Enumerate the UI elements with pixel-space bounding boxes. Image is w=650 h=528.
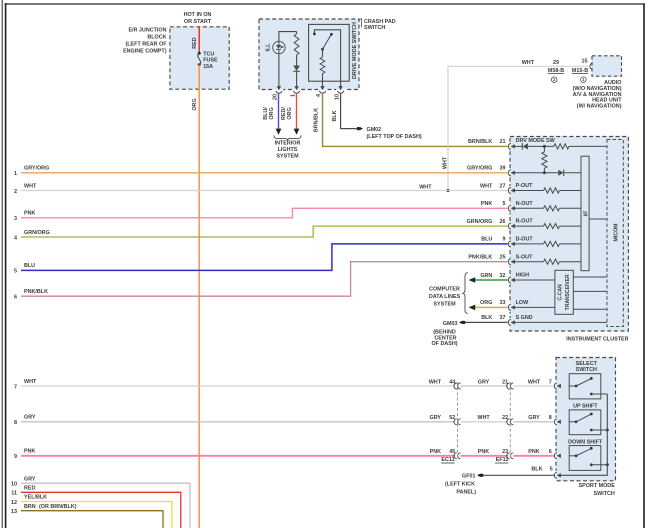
sport mode switch dashed box [556,358,616,481]
label CRASH PAD SWITCH with leader [360,19,362,28]
svg-text:20: 20 [273,94,279,100]
connector EF11 row 7 [507,383,510,389]
svg-text:I/F: I/F [583,211,589,217]
wire RED (hot feed) [198,26,200,53]
svg-text:D-OUT: D-OUT [516,237,534,243]
up shift switch box [569,410,601,435]
wire GRN (CAN high) [475,279,508,281]
lamp ILL [273,41,285,53]
svg-text:ILL: ILL [265,43,271,52]
svg-text:39: 39 [500,166,506,172]
node on drv mode sw row [543,145,546,148]
svg-text:5: 5 [550,467,553,473]
svg-text:PNK: PNK [528,449,539,455]
svg-text:15: 15 [582,59,588,65]
svg-text:GRN/ORG: GRN/ORG [24,230,50,236]
switch lever and pivot [321,48,324,51]
diode (illumination) [296,55,298,66]
audio head unit box [592,56,622,76]
svg-text:(LEFT KICK: (LEFT KICK [445,482,475,488]
node on GRY/ORG row [543,171,546,174]
svg-text:25: 25 [500,255,506,261]
svg-text:29: 29 [553,60,559,66]
svg-text:BLU: BLU [481,237,492,243]
svg-text:COMPUTER: COMPUTER [429,286,460,292]
pin 27 (cluster P-OUT) [508,186,510,195]
svg-text:4: 4 [316,94,322,97]
svg-text:SPORT MODE: SPORT MODE [579,483,616,489]
svg-text:3: 3 [14,216,17,222]
svg-text:PNK: PNK [430,449,441,455]
svg-text:1: 1 [14,171,17,177]
fuse TCU FUSE 15A [198,52,201,55]
svg-text:GM03: GM03 [443,321,458,327]
svg-text:BRN: BRN [24,504,36,510]
wire 3 PNK [21,208,508,218]
svg-text:11: 11 [11,491,17,497]
wire and resistor P-OUT [514,190,543,192]
svg-text:21: 21 [502,379,508,385]
svg-text:7: 7 [14,384,17,390]
svg-text:1: 1 [290,94,296,97]
svg-text:PNK: PNK [478,449,489,455]
wire BLK to ground GM03 [466,321,508,323]
svg-text:PNK: PNK [481,201,492,207]
svg-text:37: 37 [500,315,506,321]
svg-text:DOWN SHIFT: DOWN SHIFT [568,440,603,446]
svg-text:ORG: ORG [287,107,293,119]
svg-text:22: 22 [502,415,508,421]
svg-text:YEL/BLK: YEL/BLK [24,495,47,501]
svg-text:WHT: WHT [477,415,490,421]
resistor R1 [554,144,569,149]
svg-text:GRY: GRY [24,476,36,482]
wire 2 WHT [21,190,508,192]
wire and resistor R-OUT [514,225,543,227]
pin 7 (sport select) [554,382,556,391]
svg-text:WHT: WHT [419,184,432,190]
svg-text:BLOCK: BLOCK [147,34,166,40]
svg-text:DRV MODE SW: DRV MODE SW [516,138,556,144]
svg-text:SWITCH: SWITCH [576,367,597,373]
svg-text:BLU/: BLU/ [263,107,269,120]
svg-text:SWITCH: SWITCH [364,25,385,31]
svg-text:9: 9 [503,237,506,243]
svg-text:WHT: WHT [528,379,541,385]
svg-text:BRN/BLK: BRN/BLK [314,108,320,132]
svg-text:PNK/BLK: PNK/BLK [468,255,492,261]
resistor (switch) [322,49,324,57]
svg-text:8: 8 [14,420,17,426]
pin 26 (cluster R-OUT) [508,222,510,231]
svg-text:ENGINE COMPT): ENGINE COMPT) [123,49,167,55]
svg-text:ORG: ORG [480,300,492,306]
svg-text:GRN: GRN [480,273,492,279]
wire 1 GRY/ORG [21,172,508,174]
C-CAN transceiver box [555,270,573,314]
svg-text:E/R JUNCTION: E/R JUNCTION [128,27,166,33]
svg-text:DATA LINES: DATA LINES [429,294,461,300]
svg-text:7: 7 [549,379,552,385]
ground GF01 [480,474,483,477]
pin 25 (cluster S-OUT) [508,257,510,266]
resistor (illumination) [296,32,298,34]
svg-text:8: 8 [549,415,552,421]
brace and label COMPUTER DATA LINES SYSTEM [462,273,467,314]
ground GM03 [462,321,465,324]
connector EC11 row 8 [454,419,457,425]
svg-text:WHT: WHT [24,183,37,189]
svg-text:45: 45 [449,449,455,455]
svg-text:GF01: GF01 [462,474,475,480]
wire 4 GRN/ORG [21,226,508,237]
svg-text:(W/ NAVIGATION): (W/ NAVIGATION) [577,104,622,110]
select switch box [569,374,601,399]
wire PNK segment row 9 [461,455,509,457]
svg-text:R-OUT: R-OUT [516,219,534,225]
svg-text:2: 2 [14,189,17,195]
wires C-CAN to MICOM [573,276,607,278]
svg-text:GRY: GRY [528,415,540,421]
wire 11 RED [21,492,181,528]
svg-text:26: 26 [500,219,506,225]
wire BLK to ground GF01 [484,474,554,476]
pin 5 (sport gnd) [554,471,556,480]
svg-text:44: 44 [449,379,455,385]
pin 37 (cluster S GND) [508,318,510,327]
svg-text:4: 4 [14,235,17,241]
svg-text:SWITCH: SWITCH [594,491,615,497]
svg-text:RED/: RED/ [281,107,287,120]
svg-text:GRN/ORG: GRN/ORG [467,219,493,225]
wire ORG from fuse to bottom of page [198,65,200,528]
svg-text:FUSE: FUSE [203,58,218,64]
node (junction on WHT wire) [446,189,449,192]
svg-text:WHT: WHT [442,156,448,169]
svg-text:LOW: LOW [516,300,529,306]
wire lamp bottom to pin 20 [278,54,280,87]
pin 6 (sport down) [554,451,556,460]
svg-text:N-OUT: N-OUT [516,201,534,207]
svg-text:EC11: EC11 [441,457,454,463]
node bus/down-shift [606,463,609,466]
wire ORG (CAN low) [475,306,508,308]
svg-text:OR START: OR START [184,19,212,25]
svg-text:33: 33 [500,300,506,306]
svg-text:GRY: GRY [24,415,36,421]
pin 15/29 at audio unit [590,62,592,71]
node bus/up-shift [606,429,609,432]
svg-text:9: 9 [14,454,17,460]
pin 4 [318,88,327,90]
svg-text:5: 5 [14,269,17,275]
svg-text:PNK/BLK: PNK/BLK [24,289,48,295]
wire drv mode sw row [514,145,522,147]
wire WHT segment row 8 [461,421,509,423]
diode D1 (drv mode sw) [521,143,523,150]
svg-text:TCU: TCU [203,51,214,57]
svg-text:23: 23 [502,449,508,455]
wire BRN/BLK from pin 4 to cluster pin 21 [323,93,508,146]
svg-text:(LEFT REAR OF: (LEFT REAR OF [125,42,167,48]
svg-text:13: 13 [11,509,17,515]
wire ground bus [556,394,607,475]
E/R junction block box [170,27,229,89]
svg-text:DRIVE MODE SWITCH: DRIVE MODE SWITCH [352,22,358,79]
svg-text:10: 10 [11,482,17,488]
wire 9 PNK segment [21,455,455,457]
svg-text:OF DASH): OF DASH) [431,341,457,347]
wire and resistor N-OUT [514,207,543,209]
svg-text:BLK: BLK [531,467,542,473]
wire 5 BLU [21,244,508,271]
svg-text:5: 5 [503,201,506,207]
connector EF11 row 8 [507,419,510,425]
svg-text:RED: RED [24,486,35,492]
diode D2 [558,170,563,176]
svg-text:32: 32 [500,273,506,279]
pin 10 [336,88,345,90]
svg-text:PNK: PNK [24,449,35,455]
svg-text:HOT IN ON: HOT IN ON [184,12,212,18]
svg-text:C-CAN: C-CAN [558,284,564,300]
ground GM02 [357,127,360,130]
svg-text:(LEFT TOP OF DASH): (LEFT TOP OF DASH) [367,134,422,140]
svg-text:21: 21 [500,139,506,145]
svg-text:RED: RED [192,37,198,48]
pin 32 (cluster HIGH) [508,276,510,285]
pin 8 (sport up) [554,417,556,426]
svg-text:GRY: GRY [478,379,490,385]
svg-text:HIGH: HIGH [516,273,530,279]
svg-text:GRY/ORG: GRY/ORG [467,166,492,172]
svg-text:SYSTEM: SYSTEM [433,302,456,308]
wire and resistor S-OUT [514,261,543,263]
wire switch top bus [314,30,340,87]
svg-text:GRY: GRY [430,415,442,421]
svg-text:PNK: PNK [24,211,35,217]
pin 33 (cluster LOW) [508,303,510,312]
pin 9 (cluster D-OUT) [508,240,510,249]
brace and label INTERIOR LIGHTS SYSTEM [274,135,301,140]
crash pad switch dashed box [259,19,359,90]
connector EC11 row 9 [454,453,457,459]
svg-text:SYSTEM: SYSTEM [276,154,299,160]
svg-text:27: 27 [500,183,506,189]
wire WHT from node to audio unit [448,66,588,190]
svg-text:52: 52 [449,415,455,421]
connector EF11 dashed line [509,382,511,459]
svg-text:ORG: ORG [269,107,275,119]
pin 1 [292,88,301,90]
svg-text:MICOM: MICOM [613,224,619,242]
svg-text:BLU: BLU [24,263,35,269]
svg-text:EF11: EF11 [496,457,509,463]
connector EC11 dashed line [457,382,459,459]
svg-text:BRN/BLK: BRN/BLK [468,139,492,145]
pin 5 (cluster N-OUT) [508,204,510,213]
pin 39 (cluster) [508,168,510,177]
svg-text:TRANSCEIVER: TRANSCEIVER [565,274,571,310]
wire 13 BRN [21,511,163,528]
wire and resistor D-OUT [514,243,543,245]
wire PNK segment row 9 to switch [513,455,553,457]
wire 6 PNK/BLK [21,262,508,297]
svg-text:PANEL): PANEL) [456,490,476,496]
wire 10 GRY [21,483,190,528]
I/F box [581,156,589,271]
wire GRY segment row 8 to switch [513,421,553,423]
wire I/F to MICOM [589,218,607,220]
wire 7 WHT segment [21,385,455,387]
svg-text:INTERIOR: INTERIOR [275,141,301,147]
svg-text:GM02: GM02 [367,127,382,133]
up shift contacts [569,421,576,423]
drive mode switch inner box [309,24,350,81]
MICOM dashed box [607,140,623,327]
svg-text:WHT: WHT [480,183,493,189]
contact node (fixed, left) [313,33,316,36]
svg-text:WHT: WHT [429,379,442,385]
svg-text:P-OUT: P-OUT [516,183,533,189]
wire RED/ORG to interior lights [296,93,298,129]
wire BLU/ORG to interior lights [278,93,280,129]
svg-text:12: 12 [11,500,17,506]
svg-text:15A: 15A [203,64,213,70]
svg-text:ORG: ORG [192,98,198,110]
svg-text:UP SHIFT: UP SHIFT [573,403,598,409]
svg-text:WHT: WHT [522,60,535,66]
instrument cluster dashed box [510,137,628,332]
svg-text:BLK: BLK [332,110,338,121]
svg-text:LIGHTS: LIGHTS [278,147,298,153]
select switch contacts [569,385,576,387]
pin 20 [275,88,284,90]
pin 21 (cluster) [508,142,510,151]
wire 8 GRY segment [21,421,455,423]
svg-text:S-OUT: S-OUT [516,254,533,260]
svg-text:WHT: WHT [24,379,37,385]
resistor R2 (vertical pull) [543,146,545,151]
svg-text:S GND: S GND [516,315,533,321]
wire lamp top to resistor branch [279,32,297,42]
page borders [1,0,3,528]
svg-text:6: 6 [549,449,552,455]
down shift contacts [569,455,576,457]
svg-text:GRY/ORG: GRY/ORG [24,166,49,172]
wire 12 YEL/BLK [21,502,172,528]
svg-text:INSTRUMENT CLUSTER: INSTRUMENT CLUSTER [566,336,628,342]
svg-text:(OR BRN/BLK): (OR BRN/BLK) [39,504,77,510]
connector EF11 row 9 [507,453,510,459]
wire BLK from pin 10 to ground GM02 [341,93,357,128]
svg-text:6: 6 [14,295,17,301]
down shift switch box [569,446,601,471]
wire WHT segment row 7 to switch [513,385,553,387]
svg-text:10: 10 [334,94,340,100]
svg-text:BLK: BLK [481,315,492,321]
wire GRY segment row 7 [461,385,509,387]
connector EC11 row 7 [454,383,457,389]
